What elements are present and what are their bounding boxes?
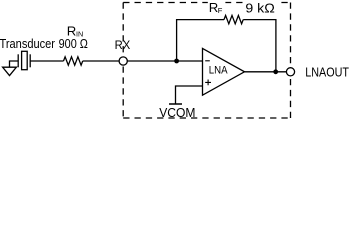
svg-text:LNA: LNA	[209, 65, 229, 77]
svg-text:F: F	[218, 6, 223, 15]
svg-text:Transducer: Transducer	[0, 36, 56, 51]
svg-text:LNAOUT: LNAOUT	[305, 65, 349, 80]
svg-text:9 kΩ: 9 kΩ	[245, 1, 275, 16]
svg-text:RX: RX	[115, 38, 131, 52]
svg-text:900 Ω: 900 Ω	[59, 36, 88, 51]
svg-text:VCOM: VCOM	[159, 105, 195, 120]
